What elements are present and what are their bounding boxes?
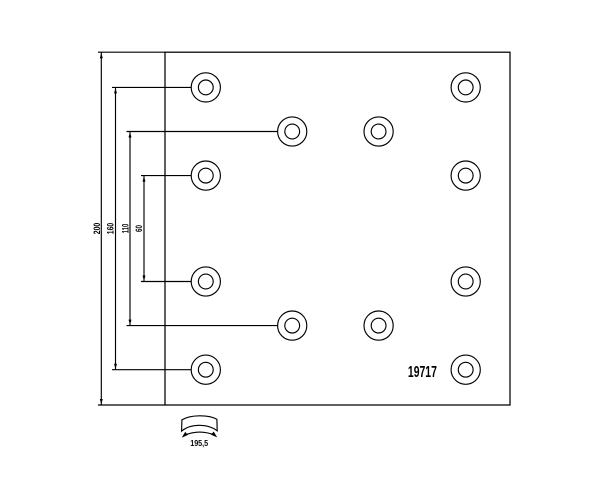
hole F1 <box>191 355 220 384</box>
arrow 110 bottom <box>129 320 132 325</box>
svg-text:160: 160 <box>106 223 116 235</box>
extension line row C <box>141 175 191 177</box>
width arc arrow <box>184 432 215 436</box>
dimension line 160 <box>115 87 117 369</box>
hole D1 <box>191 267 220 296</box>
top edge extension line <box>98 51 165 53</box>
hole E3 <box>364 311 393 340</box>
lining cross-section symbol <box>182 416 218 431</box>
arrow 160 bottom <box>114 364 117 369</box>
extension line row E <box>127 325 278 327</box>
dimension line 200 <box>100 52 102 405</box>
hole A4 <box>451 73 480 102</box>
width arrow right head <box>211 432 217 438</box>
hole F4 <box>451 355 480 384</box>
svg-text:19717: 19717 <box>408 364 437 381</box>
extension line row A <box>112 86 191 88</box>
extension line row D <box>141 281 191 283</box>
hole B2 <box>278 117 307 146</box>
svg-text:60: 60 <box>134 225 144 232</box>
arrow 200 bottom <box>100 399 103 404</box>
width arrow left head <box>182 432 188 438</box>
hole B3 <box>364 117 393 146</box>
hole C1 <box>191 161 220 190</box>
dimension line 110 <box>129 132 131 326</box>
bottom edge extension line <box>98 404 165 406</box>
svg-text:195,5: 195,5 <box>190 438 208 448</box>
arrow 110 top <box>129 132 132 137</box>
arrow 60 bottom <box>143 276 146 281</box>
svg-text:110: 110 <box>121 224 131 234</box>
arrow 160 top <box>114 88 117 93</box>
svg-text:200: 200 <box>92 223 102 235</box>
hole A1 <box>191 73 220 102</box>
plate outline <box>165 52 510 405</box>
hole E2 <box>278 311 307 340</box>
dimension line 60 <box>143 176 145 282</box>
arrow 60 top <box>143 176 146 181</box>
arrow 200 top <box>100 53 103 58</box>
extension line row B <box>127 131 278 133</box>
extension line row F <box>112 369 191 371</box>
hole C4 <box>451 161 480 190</box>
hole D4 <box>451 267 480 296</box>
